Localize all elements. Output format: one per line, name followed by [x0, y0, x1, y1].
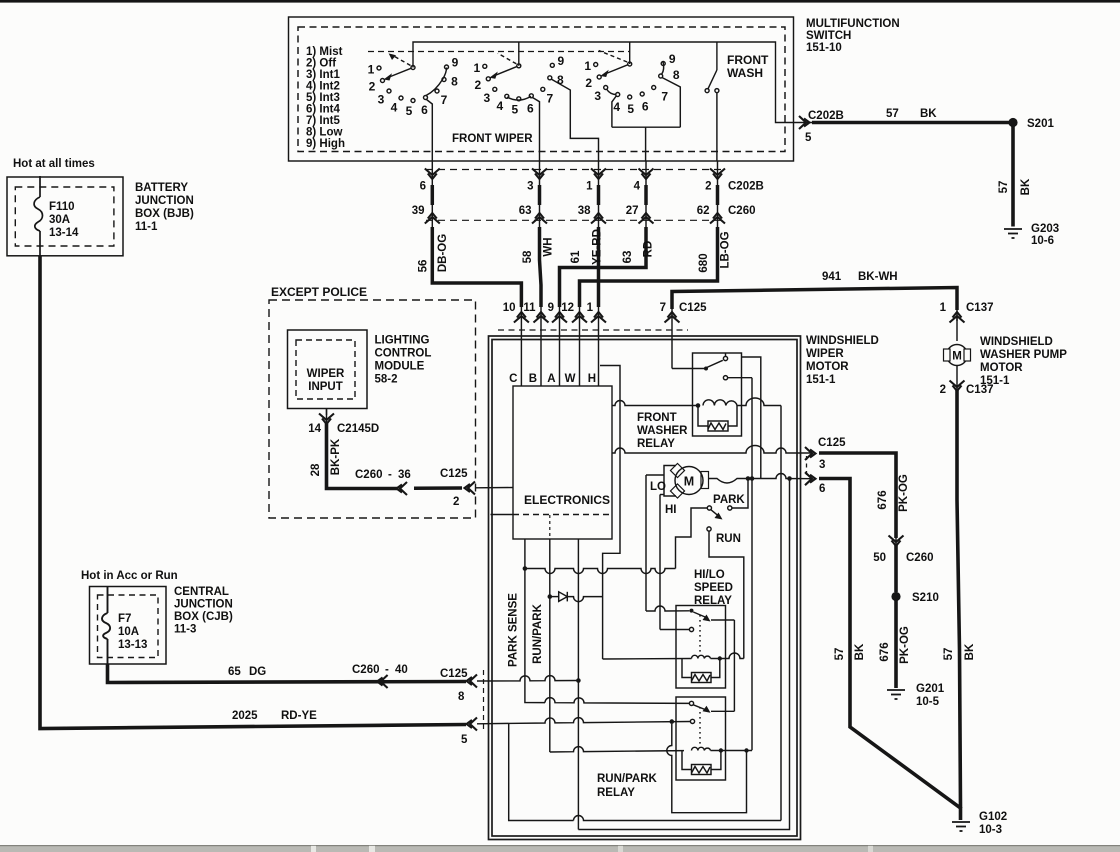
svg-text:58: 58 [522, 250, 534, 263]
svg-text:9: 9 [557, 54, 564, 68]
svg-text:WINDSHIELD: WINDSHIELD [980, 336, 1053, 348]
wafer 1 contact numbers [368, 56, 459, 119]
svg-text:2: 2 [453, 496, 459, 508]
svg-text:1: 1 [473, 61, 480, 75]
svg-text:8: 8 [673, 68, 680, 82]
svg-text:WASHER: WASHER [637, 425, 688, 437]
connector chevrons C202B row (down) and C260 row (up) [425, 169, 725, 224]
svg-text:5: 5 [511, 102, 518, 116]
windshield wiper motor label [806, 335, 879, 386]
splice S201 [1008, 118, 1017, 127]
battery junction box outline [7, 177, 123, 256]
svg-text:C137: C137 [966, 384, 994, 396]
MF switch titles and position list [306, 18, 900, 150]
dashed intermittent bus [368, 51, 630, 53]
svg-text:RELAY: RELAY [597, 787, 635, 799]
svg-text:C260: C260 [906, 552, 934, 564]
front washer relay resistor [698, 398, 781, 431]
svg-text:WINDSHIELD: WINDSHIELD [806, 335, 879, 347]
front washer relay label [637, 412, 688, 450]
C125 connector chevrons into wiper motor (up) [514, 312, 680, 323]
65 DG feed inside box [477, 676, 578, 681]
svg-text:1) Mist: 1) Mist [306, 46, 343, 58]
wire labels 57 BK right [943, 643, 976, 660]
svg-text:PK-OG: PK-OG [898, 474, 910, 512]
front wiper switch wafer 3 [594, 51, 681, 162]
hi/lo relay switch contacts and coil [603, 612, 744, 711]
electronics module [513, 386, 612, 539]
wire 65 DG [108, 664, 467, 683]
svg-text:ELECTRONICS: ELECTRONICS [524, 493, 610, 507]
connector C202B dashed line [426, 169, 726, 171]
svg-text:58-2: 58-2 [375, 374, 398, 386]
svg-text:BK-PK: BK-PK [330, 438, 342, 475]
svg-text:PARK SENSE: PARK SENSE [508, 593, 520, 667]
svg-text:EXCEPT POLICE: EXCEPT POLICE [271, 285, 367, 299]
svg-text:B: B [529, 373, 537, 385]
svg-text:676: 676 [877, 490, 889, 509]
svg-text:7: 7 [546, 91, 553, 105]
wire 28 BK-PK [327, 423, 399, 489]
ground G203 [1004, 229, 1022, 238]
svg-text:MULTIFUNCTION: MULTIFUNCTION [806, 18, 900, 30]
svg-text:7: 7 [660, 302, 666, 314]
svg-text:61: 61 [570, 250, 582, 263]
svg-text:2025: 2025 [232, 710, 258, 722]
windshield wiper motor box (double border) [489, 336, 801, 840]
wire 676 PK-OG lower to G201 [894, 597, 898, 689]
front wiper switch wafer 1 [377, 53, 449, 161]
svg-text:BK-WH: BK-WH [858, 271, 898, 283]
lighting control module [288, 330, 368, 409]
run/park relay resistor [692, 765, 712, 775]
svg-text:13-13: 13-13 [118, 639, 147, 651]
C137 pin2 chevron [950, 381, 965, 392]
svg-text:40: 40 [395, 664, 408, 676]
motor terminals LO / HI wires [646, 475, 689, 630]
svg-text:C125: C125 [679, 302, 707, 314]
wiper input / lighting control module labels [307, 335, 432, 394]
svg-text:YE-RD: YE-RD [592, 229, 604, 265]
wire 57 BK down from S201 [1011, 123, 1015, 227]
svg-text:Hot in Acc or Run: Hot in Acc or Run [81, 570, 178, 582]
page top edge [0, 0, 1120, 3]
wiper input wire stub [326, 409, 328, 425]
svg-text:2: 2 [705, 181, 711, 193]
labels G201 10-5 [916, 683, 945, 708]
svg-text:A: A [547, 373, 555, 385]
svg-text:BK: BK [964, 643, 976, 660]
run/park relay [597, 773, 658, 799]
C125 right exits pins 3 and 6 [805, 447, 816, 485]
svg-text:57: 57 [943, 648, 955, 661]
svg-text:36: 36 [398, 469, 411, 481]
svg-text:M: M [684, 475, 694, 489]
svg-text:3: 3 [527, 181, 533, 193]
svg-text:4: 4 [496, 99, 503, 113]
motor terminal labels LO HI PARK RUN [650, 481, 745, 545]
wire 941 BK-WH [672, 288, 957, 311]
connector C202B pin 5 chevron [799, 116, 810, 129]
C125 left dashed connector segment [483, 670, 485, 730]
svg-text:C137: C137 [966, 302, 994, 314]
wire labels 676 PK-OG lower [879, 626, 911, 664]
svg-text:C125: C125 [440, 468, 468, 480]
svg-text:8: 8 [557, 73, 564, 87]
svg-text:1: 1 [940, 302, 947, 314]
svg-text:676: 676 [879, 642, 891, 661]
ground G201 [887, 690, 905, 699]
svg-text:MOTOR: MOTOR [980, 362, 1023, 374]
svg-text:5: 5 [627, 102, 634, 116]
svg-text:WIPER: WIPER [307, 368, 345, 380]
svg-text:C125: C125 [440, 668, 468, 680]
svg-text:-: - [385, 664, 389, 676]
labels 50 C260 [873, 552, 933, 564]
svg-text:BK: BK [854, 643, 866, 660]
labels G102 10-3 [979, 811, 1007, 836]
svg-text:39: 39 [412, 205, 425, 217]
svg-text:C260: C260 [352, 664, 380, 676]
diode [551, 592, 603, 602]
svg-text:941: 941 [822, 271, 842, 283]
run/park relay coil [692, 747, 711, 750]
svg-text:4: 4 [391, 101, 398, 115]
electronics output to washer relay coil [612, 401, 698, 406]
svg-text:DG: DG [249, 666, 266, 678]
svg-text:10-6: 10-6 [1031, 235, 1054, 247]
svg-text:63: 63 [519, 205, 532, 217]
svg-text:PARK: PARK [713, 494, 745, 506]
svg-text:FRONT: FRONT [727, 53, 769, 67]
electronics bottom pin to 65 DG junction [577, 539, 579, 830]
svg-text:10: 10 [503, 302, 516, 314]
dashed stub inside electronics to run/park pin [549, 515, 551, 539]
svg-text:3: 3 [378, 93, 385, 107]
front wiper switch wafer 2 [483, 53, 599, 161]
svg-text:30A: 30A [49, 214, 70, 226]
wire 680 LB-OG (pin2 to C125 pin12) [580, 185, 718, 307]
svg-text:6: 6 [642, 100, 649, 114]
svg-text:G102: G102 [979, 811, 1007, 823]
svg-text:RD: RD [643, 241, 655, 258]
svg-text:JUNCTION: JUNCTION [174, 599, 233, 611]
2025 RD-YE feed inside box to run/park relay contact [477, 718, 691, 724]
electronics pin letters C B A W H [509, 373, 596, 385]
svg-text:28: 28 [310, 463, 322, 476]
feed from H line to hi/lo coil [603, 658, 692, 661]
svg-text:57: 57 [834, 648, 846, 661]
svg-text:RUN: RUN [716, 533, 741, 545]
labels G203 10-6 [1031, 223, 1059, 247]
wire 57 BK from washer pump down to G102 [957, 390, 961, 809]
hi/lo speed relay [694, 569, 733, 607]
park/run selector switch [676, 481, 749, 659]
branch from NC contact down to coil-right loop [667, 724, 747, 813]
svg-text:10-3: 10-3 [979, 824, 1002, 836]
wire labels 65 DG / C260-40 / C125 pin 8 [228, 664, 468, 703]
C260-40 chevron [377, 675, 388, 688]
except police dashed box [269, 300, 476, 518]
svg-text:S210: S210 [912, 592, 939, 604]
svg-text:BATTERY: BATTERY [135, 182, 188, 194]
svg-text:2: 2 [585, 76, 592, 90]
svg-text:8) Low: 8) Low [306, 127, 342, 139]
svg-text:C: C [509, 373, 517, 385]
svg-text:7) Int5: 7) Int5 [306, 115, 340, 127]
svg-text:3: 3 [594, 89, 601, 103]
hi/lo relay resistor [692, 673, 712, 683]
connector C260 dashed line [426, 219, 726, 221]
wire 56 DB-OG (pin6 to C125 pin10) [432, 185, 521, 307]
svg-text:6: 6 [420, 181, 426, 193]
svg-text:14: 14 [308, 423, 321, 435]
svg-text:1: 1 [368, 63, 375, 77]
svg-text:HI/LO: HI/LO [694, 569, 725, 581]
svg-text:HI: HI [665, 504, 677, 516]
electronics output to C125 pin 3 [612, 446, 812, 454]
wire 57 BK to S201 [812, 121, 1013, 125]
common bus wire inside switch [413, 42, 794, 123]
wire labels 28 BK-PK [310, 438, 342, 476]
svg-text:W: W [565, 373, 576, 385]
svg-text:9: 9 [669, 52, 676, 66]
battery junction box labels and fuse F110 value [49, 182, 194, 239]
svg-text:2) Off: 2) Off [306, 58, 336, 70]
svg-text:2: 2 [369, 80, 376, 94]
labels 14 C2145D [308, 423, 379, 435]
svg-text:9: 9 [548, 302, 554, 314]
park switch sense link [525, 569, 676, 574]
junction dots [523, 403, 701, 724]
svg-text:7: 7 [441, 93, 448, 107]
svg-text:27: 27 [626, 205, 639, 217]
connector C2145D chevron [319, 414, 334, 425]
svg-text:CENTRAL: CENTRAL [174, 586, 229, 598]
svg-text:10-5: 10-5 [916, 696, 940, 708]
wiper motor symbol [664, 466, 703, 497]
wire 676 PK-OG upper [819, 453, 896, 538]
wire 57 BK from pin 6 to G102 [819, 479, 961, 821]
C202B exit to S201 [794, 122, 1014, 124]
svg-text:C260: C260 [355, 469, 383, 481]
svg-text:4) Int2: 4) Int2 [306, 81, 340, 93]
wire 2025 RD-YE labels [232, 710, 468, 746]
svg-text:4: 4 [634, 181, 641, 193]
svg-text:-: - [388, 469, 392, 481]
svg-text:WASH: WASH [727, 66, 763, 80]
run/park wire [549, 539, 551, 752]
svg-text:PK-OG: PK-OG [899, 626, 911, 664]
svg-text:63: 63 [622, 251, 634, 264]
fuse F110 [34, 176, 42, 256]
svg-text:C202B: C202B [728, 181, 764, 193]
svg-text:RELAY: RELAY [637, 438, 675, 450]
svg-text:11-1: 11-1 [135, 221, 158, 233]
wire 63 RD (pin4 to C125 pin9) [560, 185, 647, 307]
svg-text:LO: LO [650, 481, 666, 493]
svg-text:BK: BK [920, 108, 937, 120]
svg-text:11: 11 [523, 302, 536, 314]
washer pump motor brushes [944, 349, 971, 361]
svg-text:9: 9 [452, 56, 459, 70]
hi/lo relay junction dot [718, 656, 722, 660]
washer relay coil right leg down to bottom rail [780, 406, 782, 821]
svg-text:G201: G201 [916, 683, 945, 695]
svg-text:2: 2 [474, 78, 481, 92]
ground G102 [952, 822, 970, 831]
svg-text:F110: F110 [49, 201, 75, 213]
multifunction switch box inner dashed [298, 27, 785, 152]
central junction box outline [90, 587, 167, 665]
svg-text:2: 2 [940, 384, 946, 396]
svg-text:C2145D: C2145D [337, 423, 379, 435]
svg-text:62: 62 [697, 205, 710, 217]
svg-text:BOX (CJB): BOX (CJB) [174, 611, 233, 623]
motor common wire to pin 6 [709, 474, 813, 483]
svg-text:C125: C125 [818, 437, 846, 449]
svg-text:38: 38 [578, 205, 591, 217]
svg-text:57: 57 [998, 181, 1010, 194]
front washer relay coil [703, 400, 737, 406]
svg-text:6) Int4: 6) Int4 [306, 104, 340, 116]
svg-text:1: 1 [584, 59, 591, 73]
wire from F110 down left side [40, 256, 466, 729]
svg-text:CONTROL: CONTROL [375, 348, 432, 360]
ground rail along bottom [578, 479, 789, 830]
svg-text:JUNCTION: JUNCTION [135, 195, 194, 207]
svg-text:WASHER PUMP: WASHER PUMP [980, 349, 1067, 361]
front wash switch [705, 70, 719, 161]
svg-text:10A: 10A [118, 626, 139, 638]
svg-text:5: 5 [406, 104, 413, 118]
rotated wire colour labels [418, 229, 732, 272]
svg-text:1: 1 [586, 181, 593, 193]
park sense wire [525, 539, 545, 703]
svg-text:3: 3 [483, 91, 490, 105]
mechanical link stub from case to electronics [491, 514, 514, 516]
svg-text:RUN/PARK: RUN/PARK [597, 773, 658, 785]
svg-text:DB-OG: DB-OG [437, 234, 449, 272]
svg-text:SWITCH: SWITCH [806, 30, 851, 42]
junction dots on motor common wire [746, 476, 792, 481]
wiper motor brushes [670, 463, 708, 498]
svg-text:11-3: 11-3 [174, 624, 196, 636]
washer pump motor symbol [947, 345, 968, 366]
thin connector stubs on wiper switch columns [432, 161, 717, 321]
splice S210 [891, 592, 900, 601]
multifunction switch box outer [289, 17, 794, 161]
svg-text:8: 8 [458, 691, 465, 703]
connector chevron into C125 pin 5 [467, 718, 478, 731]
svg-text:H: H [588, 373, 596, 385]
svg-text:5: 5 [805, 132, 812, 144]
windshield washer pump motor [940, 302, 1068, 396]
thin pin stubs through the box wall to electronics [521, 321, 672, 386]
svg-text:INPUT: INPUT [308, 381, 343, 393]
run/park relay switch contacts and coil [667, 701, 752, 812]
H branch wire down the middle [600, 366, 620, 660]
pin5 branch down to bottom rail [509, 724, 574, 821]
svg-text:Hot at all times: Hot at all times [13, 158, 95, 170]
svg-text:151-1: 151-1 [806, 374, 836, 386]
svg-text:SPEED: SPEED [694, 582, 733, 594]
svg-text:M: M [952, 351, 962, 363]
svg-text:WH: WH [543, 237, 555, 256]
fuse F7 [102, 587, 110, 665]
wafer 3 contact numbers [584, 52, 680, 116]
run/park relay junction dots [719, 748, 749, 752]
C260 chevron on PK-OG [889, 536, 904, 547]
wire label 941 BK-WH [822, 271, 898, 283]
wire labels 57 BK [998, 178, 1032, 195]
svg-text:C260: C260 [728, 205, 756, 217]
svg-text:50: 50 [873, 552, 886, 564]
svg-text:LIGHTING: LIGHTING [375, 335, 430, 347]
C125 dashed line top [498, 329, 688, 331]
front washer relay [693, 353, 742, 436]
svg-text:13-14: 13-14 [49, 227, 79, 239]
svg-text:6: 6 [819, 483, 825, 495]
svg-text:C202B: C202B [808, 110, 844, 122]
svg-text:F7: F7 [118, 613, 131, 625]
C125 top row labels [503, 302, 707, 314]
svg-text:4: 4 [613, 100, 620, 114]
svg-text:9) High: 9) High [306, 138, 345, 150]
svg-text:BOX (BJB): BOX (BJB) [135, 208, 194, 220]
wire 58 WH (pin3 to C125 pin11) [540, 185, 542, 307]
svg-text:FRONT WIPER: FRONT WIPER [452, 133, 533, 145]
svg-text:FRONT: FRONT [637, 412, 677, 424]
svg-text:5: 5 [461, 734, 468, 746]
C125 pin8 chevron [467, 675, 478, 688]
svg-text:8: 8 [451, 75, 458, 89]
svg-text:BK: BK [1020, 178, 1032, 195]
C125 pin2 chevron [465, 482, 476, 495]
wiper input wire C2145D [326, 409, 328, 416]
svg-text:56: 56 [418, 260, 430, 273]
svg-text:WIPER: WIPER [806, 348, 844, 360]
central junction box labels and fuse F7 value [118, 586, 233, 651]
svg-text:680: 680 [698, 253, 710, 272]
svg-text:MODULE: MODULE [375, 361, 425, 373]
svg-text:RD-YE: RD-YE [281, 710, 317, 722]
svg-text:151-10: 151-10 [806, 42, 842, 54]
svg-text:5) Int3: 5) Int3 [306, 92, 340, 104]
svg-text:6: 6 [527, 101, 534, 115]
svg-text:3: 3 [819, 459, 825, 471]
svg-text:65: 65 [228, 666, 241, 678]
labels C260-36 C125 pin 2 [355, 468, 468, 508]
svg-text:12: 12 [561, 302, 574, 314]
svg-text:7: 7 [661, 90, 668, 104]
C260-36 chevron [397, 482, 408, 495]
labels C125 pins 3 and 6 [818, 437, 846, 495]
hi/lo relay coil [692, 655, 711, 658]
rotated labels park sense / run park [508, 593, 545, 667]
wire labels 676 PK-OG upper [877, 474, 910, 512]
svg-text:1: 1 [587, 302, 594, 314]
svg-text:LB-OG: LB-OG [720, 231, 732, 268]
wafer 2 contact numbers [473, 54, 564, 117]
labels C202B pin 5 [805, 108, 937, 144]
svg-text:6: 6 [421, 103, 428, 117]
wire labels 57 BK left [834, 643, 866, 660]
svg-text:S201: S201 [1027, 118, 1054, 130]
wire 61 YE-RD (pin1 to C125 pin1) [597, 185, 601, 307]
front washer relay switch and contacts [672, 337, 761, 751]
connector row labels [412, 181, 764, 218]
